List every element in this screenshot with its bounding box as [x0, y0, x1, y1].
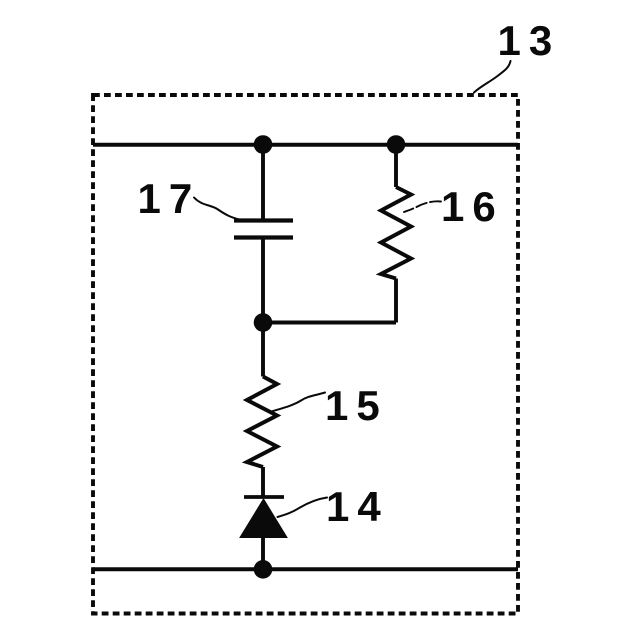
svg-text:15: 15	[325, 382, 388, 429]
enclosure dashed box 13	[93, 95, 518, 614]
junction node dot (cap/top bus)	[254, 135, 273, 154]
wire: bottom bus	[93, 567, 518, 571]
diode D14 cathode bar	[244, 495, 284, 499]
leader line to box 13	[474, 61, 511, 93]
wire: diode bottom lead	[261, 538, 265, 570]
wire: R15 bottom lead	[261, 467, 265, 497]
svg-text:14: 14	[326, 483, 389, 530]
wire: R16 bottom lead	[394, 279, 398, 323]
leader line to resistor 15	[272, 393, 326, 412]
diode D14 triangle	[240, 499, 287, 538]
wire: capacitor bottom lead	[261, 238, 265, 323]
wire: node to R16 bottom	[263, 321, 396, 325]
capacitor C17	[234, 221, 293, 238]
svg-text:13: 13	[498, 17, 561, 64]
resistor R16	[381, 187, 411, 279]
leader line to capacitor 17	[194, 198, 241, 221]
wire: top bus	[93, 143, 518, 147]
junction node dot (bottom bus)	[254, 560, 273, 579]
wire: R16 top lead	[394, 145, 398, 188]
wire: R15 top lead	[261, 323, 265, 377]
svg-text:17: 17	[138, 175, 201, 222]
wire: capacitor top lead	[261, 145, 265, 221]
leader line to resistor 16	[404, 201, 441, 212]
junction node dot (R16/top bus)	[387, 135, 406, 154]
svg-text:16: 16	[441, 183, 504, 230]
resistor R15	[247, 377, 277, 468]
leader line to diode 14	[278, 498, 328, 518]
junction node dot (mid node)	[254, 313, 273, 332]
